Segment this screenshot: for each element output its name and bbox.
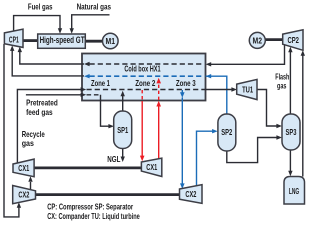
node arrowhead down into GT top (natural gas) — [70, 28, 74, 34]
svg-text:TU1: TU1 — [242, 85, 253, 95]
motor M1 — [103, 33, 119, 49]
node arrowhead right into SP3 (from SP2) — [276, 135, 282, 139]
svg-text:feed gas: feed gas — [26, 107, 53, 117]
node red arrowhead down into CX1 expander — [140, 156, 145, 162]
svg-text:Natural gas: Natural gas — [77, 2, 112, 12]
wire blue stream from feed line down to expander CX2 — [180, 92, 185, 98]
wire TU1 outlet to SP3 — [257, 90, 278, 127]
compander compressor CX2 — [13, 186, 36, 204]
node arrowhead up into CX1 compressor bottom — [28, 176, 32, 182]
svg-text:gas: gas — [277, 81, 287, 91]
shaft CP1 to GT — [23, 39, 39, 42]
node arrowhead down into GT top (fuel) — [58, 28, 62, 34]
wire SP3 liquid down to LNG — [289, 150, 291, 172]
gas turbine high-speed GT — [38, 34, 86, 48]
svg-text:Zone 1: Zone 1 — [91, 78, 110, 88]
svg-text:CX1: CX1 — [146, 162, 157, 172]
node arrowhead right into TU1 inlet — [231, 87, 237, 91]
wire SP3 flash gas to CP2 — [289, 52, 291, 115]
node arrowhead right into SP3 (from TU1) — [276, 124, 282, 128]
wire fuel gas line from CP1 to GT — [14, 16, 60, 31]
svg-text:Zone 3: Zone 3 — [176, 78, 196, 88]
wire SP2 liquid to SP3 — [227, 138, 278, 163]
wire red stream B from CX1 expander up into box — [158, 107, 160, 159]
svg-text:gas: gas — [22, 138, 34, 148]
node arrowhead up into CP1 bottom (from y64 stream) — [18, 47, 22, 53]
node blue arrowhead right into SP2 — [212, 129, 218, 133]
wire feed drop to SP1 — [101, 95, 110, 126]
svg-text:Fuel gas: Fuel gas — [28, 2, 53, 12]
compander expander CX1 — [141, 158, 161, 176]
compressor CP1 — [4, 29, 23, 47]
node arrowhead up into CX2 compressor bottom — [17, 202, 21, 208]
svg-text:CP1: CP1 — [9, 34, 19, 44]
wire SP1 vapor return up into box — [122, 96, 124, 112]
wire recycle dashed inside box y89.5 to right edge — [87, 89, 205, 91]
shaft M2 to CP2 — [265, 38, 283, 41]
separator SP1 — [114, 111, 132, 149]
node arrowhead up into CP2 bottom (boil-off) — [301, 50, 305, 56]
compander expander CX2 — [180, 185, 203, 204]
wire LNG boil-off to CP2 — [302, 55, 304, 177]
node arrowhead left entering box right edge y64 — [206, 62, 212, 66]
svg-text:CP2: CP2 — [287, 35, 299, 45]
node blue arrowhead down into CX2 expander — [180, 183, 185, 189]
wire y64 stream exit segment to CP1 — [20, 51, 84, 65]
node blue arrowhead left on y76.2 inside box — [84, 74, 90, 78]
node arrowhead up into CP1 bottom (from y76 stream) — [10, 45, 14, 51]
svg-text:SP1: SP1 — [117, 125, 128, 135]
wire recycle vapor blue dashed stream y76.2 — [90, 75, 205, 77]
wire pretreated feed gas line y95 — [26, 94, 81, 96]
wire feed dashed inside box then down to SP1 — [87, 94, 101, 96]
wire red stream B dashed inside box — [158, 84, 160, 100]
wire natural gas line into GT — [72, 15, 110, 29]
node arrowhead right entering box (feed) — [81, 93, 87, 97]
svg-text:LNG: LNG — [289, 186, 300, 196]
svg-text:Cold box HX1: Cold box HX1 — [124, 64, 160, 74]
shaft compander CX2 — [35, 193, 180, 196]
svg-text:CX1: CX1 — [18, 163, 29, 173]
node arrowhead right entering box (recycle) — [81, 87, 87, 91]
compressor CP2 — [283, 30, 303, 51]
svg-text:M2: M2 — [253, 35, 263, 45]
svg-text:SP2: SP2 — [221, 127, 232, 137]
svg-text:Pretreated: Pretreated — [26, 98, 58, 108]
node arrowhead up joining feed line — [121, 91, 125, 97]
wire feed gas stream to TU1 — [205, 89, 233, 91]
separator SP3 — [282, 114, 300, 150]
node arrowhead down into LNG tank — [288, 171, 292, 177]
wire CX2 to CX1 compressor interstage — [30, 182, 32, 190]
wire y76.2 stream exit segment to CP1 — [12, 50, 84, 76]
wire NGL outlet from SP1 bottom — [122, 149, 124, 158]
LNG storage tank — [284, 177, 305, 205]
separator SP2 — [218, 114, 236, 151]
svg-text:High-speed GT: High-speed GT — [40, 35, 85, 45]
node arrowhead left on y64 stream inside box — [84, 62, 90, 66]
node arrowhead right into SP1 inlet — [108, 124, 114, 128]
wire recycle gas line from CX1 compressor to cold box y89.5 — [17, 90, 81, 163]
wire blue CX2 expander outlet to SP2 — [197, 131, 214, 185]
shaft GT to M1 — [85, 40, 103, 43]
compander compressor CX1 — [13, 159, 34, 177]
wire red stream A from feed line down to expander CX1 — [141, 90, 143, 101]
wire CP1 discharge loop to CX2 compressor — [4, 44, 19, 217]
liquid turbine TU1 — [237, 79, 257, 99]
svg-text:NGL: NGL — [107, 154, 120, 164]
node red arrowhead up joining blue stream — [156, 78, 161, 84]
shaft compander CX1 — [34, 166, 142, 169]
svg-text:CX2: CX2 — [185, 189, 196, 199]
heat exchanger cold box HX1 body — [82, 54, 206, 101]
svg-text:CX: Compander TU: Liquid turbi: CX: Compander TU: Liquid turbine — [47, 211, 140, 221]
svg-text:CX2: CX2 — [18, 189, 29, 199]
wire CP2 discharge into cold box — [211, 45, 285, 65]
node arrowhead down NGL — [121, 157, 125, 163]
node arrowhead up into CP2 bottom (flash) — [288, 47, 292, 53]
motor M2 — [249, 32, 265, 48]
svg-text:M1: M1 — [106, 36, 116, 46]
node red arrowhead up at box bottom — [156, 101, 161, 107]
wire blue line from SP2 top into cold box — [206, 76, 227, 114]
node blue arrowhead entering box right edge y76.2 — [206, 74, 212, 78]
svg-text:SP3: SP3 — [286, 127, 297, 137]
svg-text:Zone 2: Zone 2 — [135, 78, 155, 88]
wire CP2 discharge stream dashed inside cold box at y64 — [90, 63, 205, 65]
